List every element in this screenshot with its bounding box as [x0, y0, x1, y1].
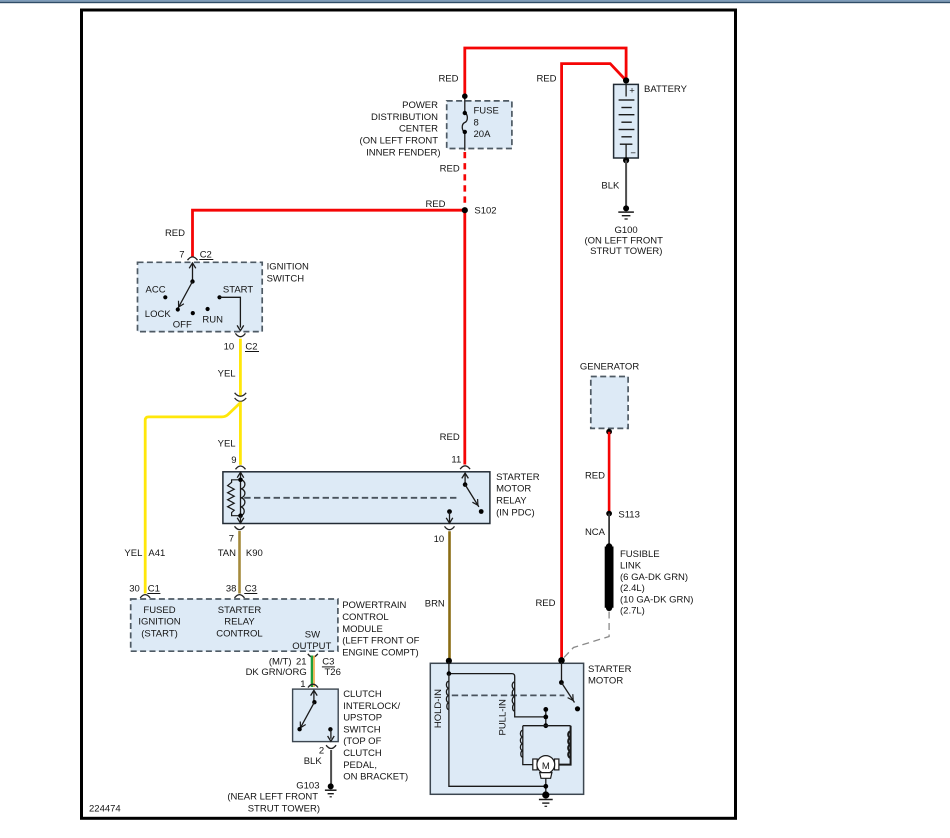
connector arc PCM pin 38: [235, 595, 245, 598]
motor M1 (circle + brushes): [533, 756, 559, 779]
svg-text:RED: RED: [535, 598, 555, 609]
svg-text:HOLD-IN: HOLD-IN: [433, 689, 444, 728]
generator box: [591, 377, 628, 429]
svg-text:RED: RED: [440, 432, 460, 443]
connector arc clutch pin 2: [326, 745, 336, 748]
connector arc relay pin 7: [235, 526, 245, 529]
wire: pull-in coil to junction: [515, 711, 546, 717]
svg-text:DK GRN/ORG: DK GRN/ORG: [246, 667, 307, 678]
svg-text:FUSE: FUSE: [474, 106, 499, 117]
contact OFF: [191, 311, 195, 315]
node: hold-in coil top: [447, 671, 452, 676]
svg-text:INTERLOCK/: INTERLOCK/: [343, 701, 400, 712]
wire BRN: relay pin 10 to starter motor: [448, 531, 451, 658]
node: relay coil top: [238, 478, 243, 483]
pin 21 / connector C3 labels (M/T): [269, 657, 335, 668]
node: clutch lever pivot: [312, 700, 316, 704]
svg-text:2: 2: [319, 746, 324, 757]
svg-text:RED: RED: [440, 163, 460, 174]
node: battery + terminal: [623, 77, 629, 83]
svg-text:LINK: LINK: [620, 560, 642, 571]
svg-text:M: M: [542, 761, 550, 772]
clutch interlock/upstop switch box: [293, 689, 339, 742]
label G100 (ON LEFT FRONT STRUT TOWER): [584, 225, 663, 257]
svg-text:MOTOR: MOTOR: [588, 676, 623, 687]
svg-text:9: 9: [231, 455, 236, 466]
svg-text:SW: SW: [305, 630, 320, 641]
svg-text:IGNITION: IGNITION: [138, 617, 180, 628]
connector arc pin 7 C2: [188, 257, 198, 260]
svg-text:PEDAL,: PEDAL,: [343, 760, 377, 771]
wire DK GRN/ORG: PCM pin 21 to clutch switch pin 1: [312, 656, 314, 688]
wire YEL: break to relay pin 9: [239, 402, 242, 465]
svg-text:C2: C2: [245, 341, 257, 352]
ignition switch label: [267, 262, 309, 285]
svg-text:RED: RED: [425, 199, 445, 210]
starter motor relay label: [496, 472, 540, 518]
wire break symbol (in-line connector): [235, 393, 247, 402]
pin 7 / connector C2 labels: [179, 249, 213, 260]
svg-text:38: 38: [226, 583, 237, 594]
svg-text:IGNITION: IGNITION: [267, 262, 309, 273]
starter motor relay box: [223, 472, 490, 524]
node: clutch NC contact: [297, 727, 301, 731]
wire NCA: S113 to fusible link: [608, 514, 610, 546]
svg-text:8: 8: [474, 117, 479, 128]
svg-text:11: 11: [451, 455, 461, 466]
svg-text:CONTROL: CONTROL: [342, 612, 388, 623]
node: relay coil bottom: [238, 513, 243, 518]
svg-text:7: 7: [229, 533, 234, 544]
svg-text:(M/T): (M/T): [269, 657, 292, 668]
armature coil (right): [559, 726, 571, 765]
relay coil K1 (bumps): [241, 480, 245, 516]
svg-text:C2: C2: [200, 249, 212, 260]
relay switch lever: [465, 485, 479, 507]
power distribution center label: [360, 100, 441, 158]
motor loop top wire: [523, 725, 571, 727]
svg-text:+: +: [629, 85, 635, 96]
pull-in coil: [512, 682, 515, 712]
node: clutch output contact: [328, 727, 332, 731]
wire RED: generator to S113: [608, 432, 611, 511]
contact START: [217, 295, 221, 299]
ignition switch box: [138, 262, 263, 331]
node: relay switch common: [463, 482, 468, 487]
svg-text:POWERTRAIN: POWERTRAIN: [342, 600, 406, 611]
svg-text:MOTOR: MOTOR: [496, 484, 531, 495]
wire BLK: battery to G100: [625, 160, 627, 206]
connector arc PCM pin 21 (C3): [308, 654, 318, 657]
fuse 8 20A value label: [474, 106, 499, 141]
power distribution center box: [447, 101, 512, 149]
wire RED: battery (+) to starter motor: [562, 64, 627, 661]
node: starter battery stud (RED): [558, 657, 565, 664]
connector arc relay pin 10: [445, 526, 455, 529]
svg-text:T26: T26: [325, 667, 341, 678]
labels TAN K90: [218, 548, 263, 559]
battery box: [614, 84, 639, 158]
ignition switch internals: arrow to pin 7: [189, 263, 196, 282]
contact ACC: [163, 295, 167, 299]
svg-text:YEL: YEL: [218, 368, 236, 379]
splice S113: [606, 511, 612, 517]
top toolbar strip: [0, 0, 950, 3]
svg-text:G103: G103: [296, 780, 319, 791]
svg-text:RUN: RUN: [202, 314, 223, 325]
svg-text:RELAY: RELAY: [224, 617, 255, 628]
dashed link: fusible link to starter stud: [563, 612, 610, 660]
svg-text:YEL: YEL: [124, 548, 142, 559]
svg-text:(NEAR LEFT FRONT: (NEAR LEFT FRONT: [227, 792, 318, 803]
svg-text:OUTPUT: OUTPUT: [292, 641, 331, 652]
svg-text:(10 GA-DK GRN): (10 GA-DK GRN): [620, 594, 693, 605]
svg-text:G100: G100: [614, 225, 637, 236]
starter motor box: [430, 663, 583, 794]
svg-text:CONTROL: CONTROL: [216, 629, 262, 640]
svg-text:224474: 224474: [89, 804, 121, 815]
svg-text:(2.7L): (2.7L): [620, 606, 645, 617]
relay resistor (zigzag, parallel with coil): [228, 480, 241, 516]
wire YEL: ignition pin 10 down to break: [239, 339, 242, 396]
svg-text:(START): (START): [141, 629, 178, 640]
svg-text:YEL: YEL: [218, 438, 236, 449]
svg-text:MODULE: MODULE: [342, 624, 383, 635]
clutch switch: arrow pin 1: [311, 690, 318, 702]
node: battery - terminal: [623, 157, 629, 163]
svg-text:1: 1: [300, 679, 305, 690]
pin 10 / connector C2 labels: [224, 341, 259, 352]
node: fuse element top: [463, 111, 467, 115]
fuse F8 element: [462, 96, 467, 151]
svg-text:21: 21: [296, 657, 307, 668]
svg-text:S102: S102: [474, 206, 496, 217]
svg-text:GENERATOR: GENERATOR: [580, 362, 639, 373]
wire RED dashed: fuse 8 to S102: [463, 152, 466, 207]
svg-text:STRUT TOWER): STRUT TOWER): [590, 246, 662, 257]
splice S102: [462, 207, 468, 213]
node: fuse top terminal: [462, 93, 468, 99]
svg-text:POWER: POWER: [402, 100, 438, 111]
svg-text:10: 10: [224, 341, 235, 352]
labels DK GRN/ORG T26: [246, 667, 341, 678]
svg-text:10: 10: [434, 534, 445, 545]
svg-text:STARTER: STARTER: [496, 472, 540, 483]
starter internal dashed link: [452, 694, 565, 696]
node: fuse element bottom: [463, 130, 467, 134]
labels YEL A41 (PCM pin 30): [124, 548, 165, 559]
svg-text:PULL-IN: PULL-IN: [497, 699, 508, 736]
svg-text:K90: K90: [246, 548, 263, 559]
wire RED: fuse 8 to battery (+): [465, 48, 626, 96]
node: starter BRN terminal: [446, 658, 452, 664]
svg-text:7: 7: [179, 249, 184, 260]
svg-text:A41: A41: [148, 548, 165, 559]
svg-text:C1: C1: [148, 583, 160, 594]
label STARTER MOTOR: [588, 664, 632, 687]
svg-text:RELAY: RELAY: [496, 496, 527, 507]
svg-text:CLUTCH: CLUTCH: [343, 689, 382, 700]
label G103 (NEAR LEFT FRONT STRUT TOWER): [227, 780, 320, 814]
connector arc pin 10 C2: [235, 333, 245, 336]
svg-text:RED: RED: [536, 73, 556, 84]
svg-text:SWITCH: SWITCH: [343, 724, 381, 735]
ground G100: [618, 205, 634, 219]
svg-text:START: START: [223, 284, 253, 295]
svg-text:LOCK: LOCK: [145, 309, 172, 320]
wire BLK: clutch pin 2 to G103: [330, 750, 332, 785]
svg-text:RED: RED: [438, 74, 458, 85]
fusible link label: [620, 549, 693, 617]
svg-text:(TOP OF: (TOP OF: [343, 736, 381, 747]
svg-text:−: −: [630, 148, 636, 159]
PCM pin function: fused ignition (start): [138, 605, 180, 640]
svg-text:STARTER: STARTER: [588, 664, 632, 675]
powertrain control module label: [342, 600, 419, 658]
svg-text:OFF: OFF: [173, 320, 192, 331]
svg-text:BLK: BLK: [304, 756, 323, 767]
clutch switch lever: [300, 702, 315, 729]
svg-text:(LEFT FRONT OF: (LEFT FRONT OF: [342, 636, 419, 647]
svg-text:CLUTCH: CLUTCH: [343, 748, 382, 759]
ignition switch lever (to LOCK): [178, 282, 193, 309]
node: motor ground junction: [543, 784, 548, 789]
svg-text:RED: RED: [585, 471, 605, 482]
starter solenoid switch: [559, 662, 580, 711]
wire: hold-in coil return loop: [449, 710, 546, 787]
svg-text:TAN: TAN: [218, 548, 236, 559]
wire YEL: branch to PCM pin 30: [145, 403, 240, 593]
connector arc PCM pin 30: [140, 595, 150, 598]
connector arc relay pin 9: [236, 466, 246, 469]
relay: arrow pin 11 to switch: [462, 473, 469, 485]
svg-text:SWITCH: SWITCH: [267, 273, 305, 284]
svg-text:BLK: BLK: [601, 181, 620, 192]
svg-text:CENTER: CENTER: [399, 124, 438, 135]
svg-text:STARTER: STARTER: [218, 605, 262, 616]
relay internal dashed link: [244, 497, 459, 499]
hold-in coil: [446, 674, 449, 710]
powertrain control module box: [131, 599, 338, 651]
svg-text:ON BRACKET): ON BRACKET): [343, 772, 408, 783]
svg-text:STRUT TOWER): STRUT TOWER): [248, 804, 320, 815]
ground G103: [325, 783, 337, 796]
svg-text:S113: S113: [618, 510, 639, 521]
wire RED: S102 to ignition switch pin 7: [193, 210, 465, 257]
relay: arrow coil to pin 7: [237, 516, 244, 523]
svg-text:NCA: NCA: [585, 527, 606, 538]
svg-text:FUSIBLE: FUSIBLE: [620, 549, 660, 560]
node: ignition lever pivot: [190, 279, 194, 283]
fusible link element: [606, 543, 612, 611]
field coil (left): [520, 726, 533, 765]
svg-text:UPSTOP: UPSTOP: [343, 713, 382, 724]
starter internal: BRN feed to coils: [449, 662, 515, 682]
svg-text:DISTRIBUTION: DISTRIBUTION: [371, 112, 438, 123]
svg-text:20A: 20A: [474, 129, 492, 140]
svg-text:(2.4L): (2.4L): [620, 583, 645, 594]
wire TAN: relay pin 7 to PCM pin 38: [238, 531, 241, 594]
svg-text:RED: RED: [165, 228, 185, 239]
PCM pin function: starter relay control: [216, 605, 262, 640]
svg-text:(IN PDC): (IN PDC): [496, 507, 535, 518]
clutch: arrow output to pin 2: [328, 729, 335, 741]
connector arc clutch pin 1: [308, 684, 318, 687]
relay: arrow pin 9 to coil: [237, 472, 244, 480]
svg-text:(ON LEFT FRONT: (ON LEFT FRONT: [584, 236, 663, 247]
node: relay NO contact: [479, 509, 484, 514]
svg-text:BRN: BRN: [425, 598, 445, 609]
PCM pin function: SW OUTPUT: [292, 630, 331, 652]
clutch switch label: [343, 689, 408, 783]
svg-text:ENGINE COMPT): ENGINE COMPT): [342, 647, 419, 658]
svg-text:FUSED: FUSED: [143, 605, 175, 616]
pin 38 / connector C3 labels: [226, 583, 257, 594]
svg-text:ACC: ACC: [146, 284, 166, 295]
node: generator output terminal: [606, 429, 612, 435]
battery B1 internals: [619, 84, 637, 159]
svg-text:C3: C3: [245, 583, 257, 594]
contact LOCK: [176, 307, 180, 311]
wire RED: S102 to relay pin 11: [463, 210, 466, 464]
svg-text:30: 30: [129, 583, 140, 594]
svg-text:BATTERY: BATTERY: [644, 84, 688, 95]
svg-text:(ON LEFT FRONT: (ON LEFT FRONT: [360, 136, 439, 147]
ground: starter motor case: [539, 791, 553, 806]
connector arc relay pin 11: [460, 466, 470, 469]
node column: solenoid output junctions: [543, 707, 548, 728]
svg-text:(6 GA-DK GRN): (6 GA-DK GRN): [620, 572, 688, 583]
diagram border frame: [82, 10, 736, 818]
relay: arrow output to pin 10: [446, 512, 453, 523]
contact RUN: [206, 307, 210, 311]
pin 30 / connector C1 labels: [129, 583, 160, 594]
node: relay output contact: [447, 509, 452, 514]
wire: motor to ground: [545, 778, 547, 795]
svg-text:INNER FENDER): INNER FENDER): [366, 147, 440, 158]
wire: START contact to pin 10: [220, 297, 244, 330]
